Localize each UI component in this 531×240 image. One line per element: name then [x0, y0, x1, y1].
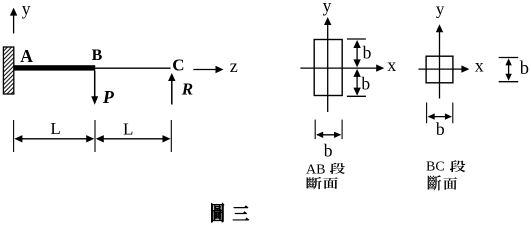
svg-text:z: z: [230, 56, 238, 76]
BC bottom dimension right tick: [452, 103, 454, 124]
BC bottom dimension double arrow (width b): [428, 113, 452, 119]
dimension extension tick at A: [13, 120, 15, 152]
AB right dimension upper double arrow (b above x axis): [353, 40, 360, 67]
BC section x axis arrow: [418, 65, 469, 72]
svg-text:BC: BC: [426, 160, 445, 175]
AB right dimension top tick: [347, 38, 366, 40]
AB bottom dimension left tick: [314, 120, 316, 140]
dimension arrow L (A to B): [14, 135, 94, 142]
AB bottom dimension right tick: [341, 120, 343, 140]
svg-text:A: A: [20, 46, 33, 66]
caption 斷面 (AB): [306, 177, 338, 189]
fixed wall support (hatched): [3, 47, 13, 94]
BC right dimension double arrow (height b): [505, 58, 511, 80]
svg-text:b: b: [361, 73, 370, 93]
svg-text:x: x: [475, 55, 484, 75]
BC right dimension top tick: [499, 57, 519, 59]
svg-text:x: x: [387, 55, 396, 75]
AB right dimension bottom tick: [347, 95, 366, 97]
beam segment BC (thin line): [95, 67, 171, 69]
BC section y axis arrow: [436, 24, 443, 98]
svg-text:L: L: [50, 119, 60, 138]
svg-text:B: B: [92, 47, 103, 64]
svg-text:P: P: [102, 87, 115, 107]
figure caption 圖三 (Figure 3): [211, 203, 249, 222]
y axis arrow of beam figure: [10, 8, 17, 34]
svg-text:y: y: [323, 0, 332, 15]
dimension extension tick at B: [94, 120, 96, 152]
force P arrow (downward at B): [91, 71, 98, 105]
AB section y axis arrow: [324, 17, 331, 112]
BC bottom dimension left tick: [426, 103, 428, 124]
AB section x axis arrow: [300, 64, 384, 71]
svg-text:L: L: [123, 119, 133, 138]
AB section rectangle outline (b x 2b): [314, 40, 342, 96]
AB bottom dimension double arrow (width b): [316, 132, 341, 138]
caption AB 段: [306, 162, 345, 177]
svg-text:b: b: [324, 141, 333, 161]
BC right dimension bottom tick: [499, 81, 519, 83]
svg-text:y: y: [436, 0, 445, 19]
svg-text:b: b: [520, 59, 529, 79]
dimension extension tick at C: [170, 120, 172, 152]
BC section square outline (b x b): [426, 56, 453, 83]
svg-text:b: b: [436, 119, 445, 139]
AB right dimension lower double arrow (b below x axis): [353, 69, 360, 96]
svg-text:AB: AB: [306, 162, 325, 177]
svg-text:C: C: [172, 55, 184, 74]
z axis arrow: [193, 66, 223, 73]
svg-text:R: R: [181, 80, 193, 99]
beam segment AB (thick bar): [14, 65, 96, 70]
svg-text:b: b: [363, 42, 372, 62]
svg-text:y: y: [22, 0, 31, 18]
caption 斷面 (BC): [427, 175, 457, 190]
reaction R arrow (upward at C): [168, 73, 175, 105]
dimension arrow L (B to C): [96, 135, 171, 142]
caption BC 段: [426, 160, 466, 175]
